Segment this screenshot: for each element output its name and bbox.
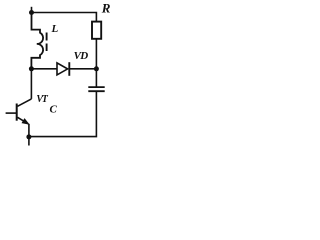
node: right junction dot (diode / resistor / capacitor) [94,66,99,71]
diode VD cathode bar [68,62,70,76]
capacitor C bottom plate [88,90,104,92]
svg-text:L: L [51,23,59,35]
svg-text:R: R [101,1,111,16]
capacitor C top plate [88,86,104,88]
wire: capacitor bottom plate down and along bottom to emitter node [29,91,97,136]
transistor VT collector diagonal [18,99,32,106]
wire: bottom terminal stub below junction [28,137,30,146]
wire: emitter vertical down to bottom junction [28,124,30,137]
wire: right junction down to capacitor top plate [95,69,97,87]
node: top-left junction dot [29,10,34,15]
wire: top terminal stub above left junction [31,7,33,13]
wire: top horizontal rail to resistor [32,13,97,22]
transistor VT base bar [16,104,18,121]
inductor core dashed line [46,33,48,41]
svg-text:VD: VD [74,50,89,62]
node: left junction dot (inductor / diode / collector) [29,66,34,71]
wire: diode cathode to right junction [69,68,96,70]
transistor VT base lead [6,112,16,114]
resistor R body [92,22,101,39]
wire: horizontal from left junction to diode anode [31,68,57,70]
transistor VT emitter arrowhead [22,119,28,124]
wire: collector vertical from left junction down to transistor [30,69,32,99]
transistor VT emitter diagonal [18,117,29,124]
inductor L winding [31,13,43,69]
svg-text:C: C [50,104,58,116]
wire: resistor bottom lead down to right junction [95,39,97,69]
diode VD triangle [57,63,68,75]
node: bottom-left junction dot (emitter / bottom rail) [26,134,31,139]
